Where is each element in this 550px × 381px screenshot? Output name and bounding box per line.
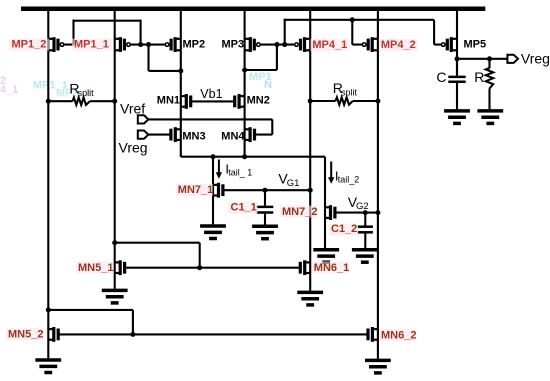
- node tail junction MN4 source: [242, 154, 247, 159]
- wire MN7_1 drain vertical: [212, 157, 214, 225]
- transistor MP4_1: [295, 37, 311, 52]
- svg-text:MP1_2: MP1_2: [12, 39, 47, 51]
- label MN1: [157, 94, 180, 106]
- svg-text:MN5_1: MN5_1: [78, 262, 113, 274]
- ground MN7_2 source: [313, 250, 339, 263]
- ground MN5_2 source: [35, 360, 61, 373]
- svg-text:MP2: MP2: [183, 38, 206, 50]
- svg-text:Vreg: Vreg: [521, 50, 550, 66]
- ground MN6_1 source: [297, 292, 323, 305]
- wire MP4_2 gate drop: [352, 20, 362, 45]
- node gate bus junction: [282, 42, 287, 47]
- node MP2 diode junction on gate wire: [146, 42, 151, 47]
- wire gate bus vertical up: [284, 19, 286, 45]
- wire Vreg net to MN3 gate: [148, 134, 171, 136]
- port Vreg input: [138, 131, 149, 139]
- ground R output: [477, 111, 503, 124]
- transistor MN6_1: [300, 260, 310, 275]
- svg-text:MN7_2: MN7_2: [282, 206, 317, 218]
- wire Vref net: [148, 119, 272, 134]
- node Rsplit right junction H: [375, 99, 380, 104]
- capacitor C output: [448, 59, 465, 110]
- svg-text:MN4: MN4: [221, 130, 245, 142]
- capacitor C1_1: [257, 190, 274, 224]
- node MN5_2 gate junction: [130, 332, 135, 337]
- svg-text:MP4_1: MP4_1: [312, 39, 347, 51]
- node VG2 junction MP4_2 drain: [375, 210, 380, 215]
- svg-text:MP1_1: MP1_1: [74, 39, 109, 51]
- label C1_2: [329, 223, 358, 235]
- wire MP1_2 gate to loop: [64, 43, 73, 45]
- wire MP3 diode vertical: [276, 45, 278, 70]
- node output junction R: [487, 56, 492, 61]
- svg-text:MP4_2: MP4_2: [381, 39, 416, 51]
- node gate bus to MP4_2 junction: [350, 17, 355, 22]
- transistor MN2: [235, 94, 245, 109]
- svg-text:G2: G2: [356, 201, 369, 212]
- wire MP1 gate loop vertical left: [72, 20, 74, 45]
- transistor MN5_1: [115, 260, 125, 275]
- svg-text:C: C: [436, 69, 446, 85]
- label Vreg input: [119, 139, 148, 155]
- label MN3: [182, 130, 205, 142]
- transistor MN7_2: [325, 205, 335, 220]
- svg-text:MP3: MP3: [222, 38, 245, 50]
- label VG2: [348, 194, 369, 212]
- node tail junction MN7_1: [211, 154, 216, 159]
- ghost watermark texts: [0, 71, 272, 100]
- label VG1: [278, 170, 299, 188]
- node Rsplit left junction B: [112, 99, 117, 104]
- current arrow Itail_1: [216, 160, 222, 179]
- transistor MP5: [441, 37, 457, 52]
- transistor MN4: [245, 127, 255, 142]
- resistor Rsplit right: [310, 97, 378, 104]
- label Vreg output: [521, 50, 550, 66]
- label Rsplit left: [69, 80, 94, 98]
- label Itail_1: [225, 161, 252, 177]
- node VG1 junction second stage: [308, 188, 313, 193]
- label MN5_2: [6, 328, 43, 340]
- wire MP5 branch vertical: [456, 7, 458, 76]
- node VG1 junction C1_1: [263, 188, 268, 193]
- current arrow Itail_2: [328, 162, 334, 184]
- wire Vb1 gate wire: [191, 100, 235, 102]
- svg-text:MN6_1: MN6_1: [314, 262, 349, 274]
- wire MP1_2 branch vertical (A): [47, 7, 49, 359]
- svg-text:MN2: MN2: [247, 94, 270, 106]
- svg-text:MP5: MP5: [464, 38, 487, 50]
- label Vref: [120, 100, 145, 116]
- port Vreg output: [507, 55, 518, 63]
- label MP4_1: [310, 39, 349, 51]
- wire output node: [457, 58, 508, 60]
- transistor MN5_2: [48, 327, 58, 342]
- svg-text:4_1: 4_1: [0, 84, 18, 96]
- label MN2: [247, 94, 270, 106]
- wire MN5_1 diode loop: [115, 243, 200, 268]
- wire MP2 diode vertical: [147, 45, 149, 71]
- label MN5_1: [76, 262, 113, 274]
- ground MN7_1 source: [200, 226, 226, 239]
- label C1_1: [229, 202, 258, 214]
- label MP5: [464, 38, 487, 50]
- wire MP5 gate drop: [434, 20, 441, 45]
- svg-text:split: split: [341, 87, 358, 97]
- svg-text:MN7_1: MN7_1: [178, 184, 213, 196]
- node MP1/MP2 gate junction: [138, 42, 143, 47]
- node MP3 drain junction: [242, 68, 247, 73]
- transistor MP3: [245, 37, 261, 52]
- svg-text:Vb1: Vb1: [200, 87, 222, 101]
- label MN6_1: [312, 262, 349, 274]
- wire MP4_2/MN6_2 branch vertical (H): [377, 7, 379, 359]
- transistor MN1: [181, 94, 191, 109]
- svg-text:C1_1: C1_1: [231, 202, 257, 214]
- wire MP3/MN2/MN4 branch vertical (F): [244, 7, 246, 157]
- capacitor C1_2: [358, 213, 373, 249]
- label Vb1: [200, 87, 222, 101]
- transistor MN3: [171, 127, 181, 142]
- VDD supply rail: [21, 6, 485, 11]
- label C output: [436, 69, 446, 85]
- label MP1_2: [9, 39, 49, 51]
- ground C output: [444, 111, 470, 124]
- port Vref input: [138, 115, 149, 123]
- node MN5_1 gate junction: [197, 265, 202, 270]
- transistor MP1_2: [48, 37, 64, 52]
- wire MP1_1 gate to MP2 gate: [131, 43, 168, 45]
- transistor MP4_2: [362, 37, 378, 52]
- svg-text:split: split: [78, 88, 95, 98]
- svg-text:G1: G1: [287, 178, 300, 189]
- wire MP3 gate to MP4_1 gate: [260, 43, 296, 45]
- label MN7_1: [176, 184, 213, 196]
- transistor MP1_1: [115, 37, 131, 52]
- wire MN5_1/MN6_1 gate net: [125, 267, 301, 269]
- label MP3: [222, 38, 245, 50]
- node output junction MP5 drain: [455, 56, 460, 61]
- wire MN5_2/MN6_2 gate net: [58, 333, 368, 335]
- node MN5_1 loop top junction: [112, 240, 117, 245]
- wire VG2 net: [335, 212, 378, 214]
- label MN6_2: [379, 329, 416, 341]
- transistor MP2: [165, 37, 181, 52]
- wire tail node horizontal: [181, 156, 325, 157]
- svg-text:Vreg: Vreg: [119, 139, 148, 155]
- wire MP2/MN1/MN3 branch vertical (E): [180, 7, 182, 157]
- resistor Rsplit left: [48, 98, 114, 105]
- ground MN6_2 source: [365, 360, 391, 373]
- label MN7_2: [280, 206, 317, 218]
- wire MP1 gate loop horizontal: [73, 20, 142, 22]
- ground MN5_1 source: [102, 290, 128, 303]
- node VG2 junction C1_2: [363, 210, 368, 215]
- wire MP4_1/MN6_1 branch vertical (G): [309, 7, 311, 291]
- wire MN5_2 diode loop: [48, 310, 133, 335]
- wire MP2 diode horizontal: [149, 70, 181, 72]
- ground C1_1: [252, 226, 278, 239]
- label Itail_2: [335, 168, 359, 184]
- svg-text:C1_2: C1_2: [331, 223, 357, 235]
- label MP1_1: [72, 39, 112, 51]
- node Rsplit left junction A: [46, 99, 51, 104]
- label Rsplit right: [333, 80, 358, 98]
- wire MP1 gate loop vertical right: [140, 21, 142, 45]
- node MP2 drain junction: [178, 68, 183, 73]
- ground C1_2: [352, 250, 378, 263]
- wire gate bus horizontal: [284, 19, 434, 21]
- label R output: [474, 69, 484, 85]
- label MP4_2: [379, 39, 418, 51]
- node Rsplit right junction G: [308, 99, 313, 104]
- transistor MN7_1: [213, 183, 223, 198]
- wire VG1 net: [223, 189, 310, 191]
- resistor R output: [486, 59, 493, 110]
- svg-text:tail_ 1: tail_ 1: [228, 168, 252, 178]
- node MN5_2 loop top junction: [46, 307, 51, 312]
- svg-text:MN5_2: MN5_2: [8, 328, 43, 340]
- label MN4: [221, 130, 245, 142]
- node MP3 diode junction on gate wire: [274, 42, 279, 47]
- transistor MN6_2: [368, 327, 378, 342]
- svg-text:N: N: [264, 79, 272, 91]
- svg-text:MN1: MN1: [157, 94, 180, 106]
- svg-text:R: R: [474, 69, 484, 85]
- svg-text:MN6_2: MN6_2: [381, 329, 416, 341]
- wire MP3 diode horizontal: [245, 69, 277, 71]
- label MP2: [183, 38, 206, 50]
- svg-text:Vref: Vref: [120, 100, 145, 116]
- wire MP1_1 branch vertical (B): [114, 7, 116, 289]
- wire tail-2 vertical: [324, 157, 326, 249]
- svg-text:MN3: MN3: [182, 130, 205, 142]
- svg-text:tail_2: tail_2: [338, 175, 360, 185]
